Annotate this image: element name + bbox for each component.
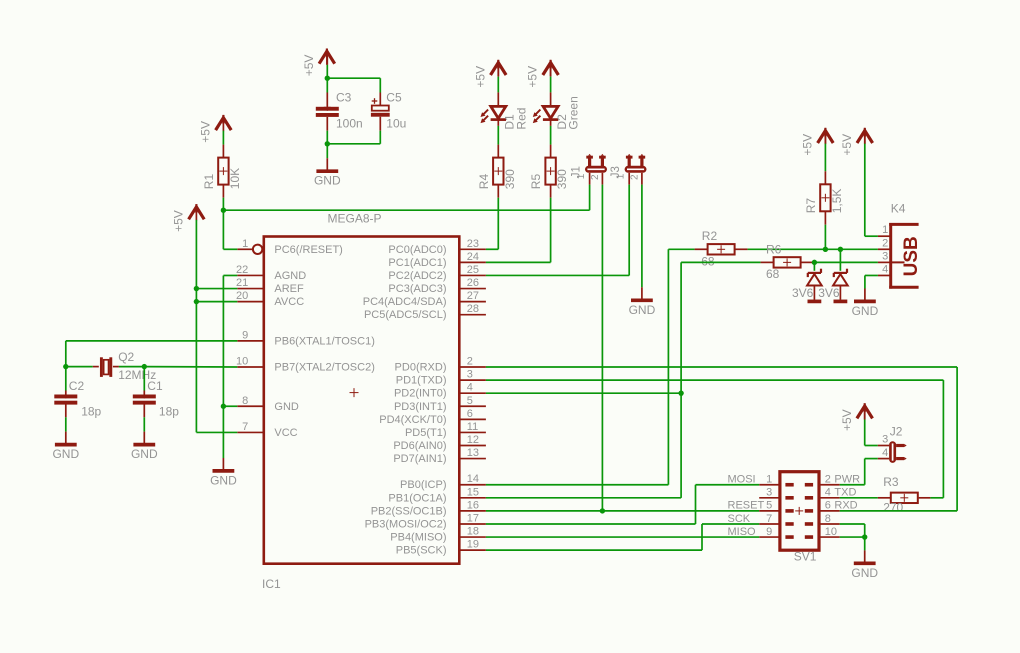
svg-text:PD7(AIN1): PD7(AIN1) — [393, 453, 446, 465]
svg-text:MEGA8-P: MEGA8-P — [328, 212, 382, 226]
svg-text:18p: 18p — [159, 405, 179, 419]
svg-text:PB5(SCK): PB5(SCK) — [396, 545, 447, 557]
svg-text:1: 1 — [882, 224, 888, 236]
svg-text:+5V: +5V — [526, 66, 540, 88]
svg-text:19: 19 — [467, 539, 479, 551]
svg-text:10u: 10u — [386, 117, 406, 131]
svg-text:390: 390 — [503, 169, 517, 189]
svg-text:USB: USB — [901, 236, 922, 276]
svg-text:GND: GND — [274, 401, 299, 413]
svg-text:VCC: VCC — [274, 427, 297, 439]
svg-text:PB1(OC1A): PB1(OC1A) — [388, 492, 446, 504]
svg-text:15: 15 — [467, 486, 479, 498]
svg-text:MOSI: MOSI — [728, 474, 756, 486]
svg-text:3: 3 — [467, 369, 473, 381]
svg-text:PC2(ADC2): PC2(ADC2) — [388, 270, 446, 282]
svg-text:PC6(/RESET): PC6(/RESET) — [274, 244, 342, 256]
svg-text:R4: R4 — [477, 174, 491, 190]
svg-text:Green: Green — [567, 96, 581, 129]
svg-text:+5V: +5V — [302, 55, 316, 77]
svg-text:9: 9 — [242, 329, 248, 341]
svg-text:GND: GND — [210, 473, 237, 487]
svg-text:1,5K: 1,5K — [830, 189, 844, 214]
svg-text:C2: C2 — [69, 379, 85, 393]
svg-text:11: 11 — [467, 421, 478, 433]
svg-text:TXD: TXD — [834, 487, 856, 499]
svg-text:+5V: +5V — [840, 409, 854, 431]
svg-text:100n: 100n — [336, 117, 363, 131]
svg-text:6: 6 — [467, 408, 473, 420]
svg-text:18: 18 — [467, 526, 479, 538]
svg-text:PD6(AIN0): PD6(AIN0) — [393, 440, 446, 452]
svg-text:2: 2 — [882, 237, 888, 249]
svg-text:7: 7 — [242, 421, 248, 433]
svg-text:R5: R5 — [529, 174, 543, 190]
svg-text:GND: GND — [851, 566, 878, 580]
svg-text:PB6(XTAL1/TOSC1): PB6(XTAL1/TOSC1) — [274, 335, 374, 347]
svg-text:10: 10 — [825, 526, 837, 538]
svg-text:GND: GND — [52, 447, 79, 461]
svg-text:+5V: +5V — [199, 121, 213, 143]
svg-text:8: 8 — [825, 513, 831, 525]
svg-text:RXD: RXD — [834, 500, 857, 512]
svg-text:PD5(T1): PD5(T1) — [405, 427, 447, 439]
svg-text:3: 3 — [766, 487, 772, 499]
svg-text:J2: J2 — [890, 425, 903, 439]
svg-text:3V6: 3V6 — [818, 286, 840, 300]
svg-text:390: 390 — [555, 169, 569, 189]
svg-text:GND: GND — [131, 447, 158, 461]
svg-text:PB4(MISO): PB4(MISO) — [390, 532, 446, 544]
svg-text:26: 26 — [467, 277, 479, 289]
svg-text:GND: GND — [314, 174, 341, 188]
svg-text:R1: R1 — [202, 174, 216, 190]
svg-text:IC1: IC1 — [262, 577, 281, 591]
svg-text:5: 5 — [766, 500, 772, 512]
svg-text:22: 22 — [236, 264, 248, 276]
svg-text:PD0(RXD): PD0(RXD) — [395, 362, 447, 374]
svg-text:PD4(XCK/T0): PD4(XCK/T0) — [379, 414, 446, 426]
svg-text:5: 5 — [467, 395, 473, 407]
svg-text:PC1(ADC1): PC1(ADC1) — [388, 257, 446, 269]
svg-text:18p: 18p — [81, 405, 101, 419]
svg-text:GND: GND — [852, 304, 879, 318]
svg-text:Q2: Q2 — [118, 350, 134, 364]
svg-text:4: 4 — [467, 382, 473, 394]
svg-text:1: 1 — [766, 474, 772, 486]
svg-text:3V6: 3V6 — [792, 286, 814, 300]
svg-text:2: 2 — [629, 174, 640, 180]
svg-text:270: 270 — [883, 501, 903, 515]
svg-text:25: 25 — [467, 264, 479, 276]
svg-text:PD1(TXD): PD1(TXD) — [396, 375, 447, 387]
svg-text:2: 2 — [467, 356, 473, 368]
svg-text:13: 13 — [467, 447, 479, 459]
svg-text:J1: J1 — [571, 166, 583, 178]
svg-text:10K: 10K — [228, 168, 242, 189]
svg-text:AGND: AGND — [274, 270, 306, 282]
svg-text:PC4(ADC4/SDA): PC4(ADC4/SDA) — [363, 296, 447, 308]
svg-text:C1: C1 — [147, 379, 163, 393]
svg-text:R2: R2 — [702, 229, 718, 243]
svg-text:3: 3 — [882, 434, 888, 446]
svg-text:PC3(ADC3): PC3(ADC3) — [388, 283, 446, 295]
svg-text:68: 68 — [766, 267, 780, 281]
svg-text:J3: J3 — [610, 166, 622, 178]
svg-text:PC5(ADC5/SCL): PC5(ADC5/SCL) — [364, 309, 447, 321]
svg-text:20: 20 — [236, 290, 248, 302]
svg-text:4: 4 — [882, 447, 888, 459]
svg-text:PB2(SS/OC1B): PB2(SS/OC1B) — [371, 505, 447, 517]
svg-text:MISO: MISO — [728, 526, 757, 538]
svg-text:7: 7 — [766, 513, 772, 525]
svg-text:AREF: AREF — [274, 283, 304, 295]
svg-text:PD2(INT0): PD2(INT0) — [394, 388, 447, 400]
svg-text:PB0(ICP): PB0(ICP) — [400, 479, 446, 491]
svg-text:GND: GND — [629, 303, 656, 317]
svg-text:+5V: +5V — [172, 210, 186, 232]
svg-text:C3: C3 — [336, 91, 352, 105]
svg-text:4: 4 — [825, 487, 831, 499]
svg-text:+5V: +5V — [840, 134, 854, 156]
svg-text:6: 6 — [825, 500, 831, 512]
svg-text:R6: R6 — [766, 243, 782, 257]
svg-text:14: 14 — [467, 473, 479, 485]
svg-text:PB3(MOSI/OC2): PB3(MOSI/OC2) — [365, 518, 447, 530]
svg-text:68: 68 — [701, 255, 715, 269]
svg-text:C5: C5 — [386, 91, 402, 105]
svg-text:21: 21 — [236, 277, 248, 289]
svg-text:PC0(ADC0): PC0(ADC0) — [388, 244, 446, 256]
svg-text:SCK: SCK — [728, 513, 751, 525]
svg-text:PD3(INT1): PD3(INT1) — [394, 401, 447, 413]
svg-text:2: 2 — [825, 474, 831, 486]
svg-text:PWR: PWR — [834, 474, 860, 486]
svg-text:AVCC: AVCC — [274, 296, 304, 308]
svg-text:23: 23 — [467, 238, 479, 250]
svg-text:12: 12 — [467, 434, 479, 446]
svg-text:4: 4 — [882, 263, 888, 275]
svg-text:+5V: +5V — [473, 66, 487, 88]
svg-text:1: 1 — [242, 238, 248, 250]
svg-text:R7: R7 — [804, 198, 818, 214]
svg-text:17: 17 — [467, 512, 479, 524]
svg-text:PB7(XTAL2/TOSC2): PB7(XTAL2/TOSC2) — [274, 362, 374, 374]
svg-text:K4: K4 — [891, 202, 906, 216]
svg-text:24: 24 — [467, 251, 479, 263]
svg-text:16: 16 — [467, 499, 479, 511]
svg-text:Red: Red — [514, 108, 528, 130]
svg-text:+5V: +5V — [801, 134, 815, 156]
svg-text:9: 9 — [766, 526, 772, 538]
svg-text:10: 10 — [236, 356, 248, 368]
svg-text:2: 2 — [590, 174, 601, 180]
svg-text:R3: R3 — [883, 475, 899, 489]
svg-text:27: 27 — [467, 290, 479, 302]
svg-text:RESET: RESET — [728, 500, 765, 512]
svg-text:SV1: SV1 — [794, 550, 817, 564]
svg-text:8: 8 — [242, 395, 248, 407]
svg-text:3: 3 — [882, 250, 888, 262]
svg-text:28: 28 — [467, 303, 479, 315]
